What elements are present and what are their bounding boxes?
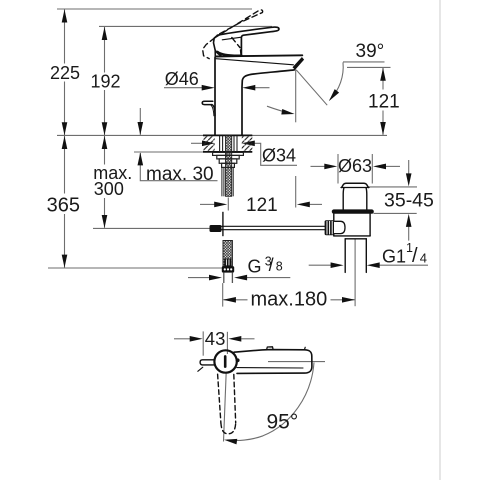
spout plumb line [295, 70, 297, 123]
arrowhead 365 bottom [62, 255, 68, 268]
arrowhead max30 down [138, 122, 144, 135]
top view handle tab [267, 347, 274, 350]
bottom hose reference line (365) [48, 267, 222, 269]
pop-up horizontal rod [210, 226, 325, 229]
pop-up rod knob shaft curve [212, 105, 215, 116]
waste centreline extension [354, 239, 356, 306]
lever blade top edge [218, 27, 279, 55]
shank side lines [221, 167, 223, 196]
arrowhead 35-45 top [406, 173, 412, 186]
top view pivot bar [224, 356, 227, 366]
max180 left extension [222, 283, 224, 307]
dim max180 line [224, 299, 248, 301]
arrowhead 95deg arc end [224, 437, 238, 444]
svg-text:Ø63: Ø63 [338, 156, 372, 176]
arrowhead 121 horizontal left [214, 202, 227, 208]
reference line top (spout height datum) [57, 8, 252, 10]
dim max300 line [104, 136, 106, 165]
svg-text:/: / [269, 255, 274, 275]
arrowhead Ø46 left-pointing [242, 85, 255, 91]
deck outline thick bottom [203, 151, 252, 153]
arrowhead 43 left [190, 336, 203, 342]
arrowhead 225 top [62, 10, 68, 23]
svg-text:121: 121 [368, 91, 400, 112]
arrowhead Ø34 left side [202, 141, 215, 147]
spout top inner line [216, 59, 294, 65]
arrowhead 192 bottom [102, 122, 108, 135]
supply hose braided [223, 241, 232, 267]
shank tube lines in hole [219, 136, 221, 152]
svg-text:300: 300 [94, 179, 124, 199]
svg-text:39°: 39° [356, 41, 385, 62]
pop-up rod knob [202, 101, 213, 104]
arrowhead max180 left [223, 297, 236, 303]
dashed rotated lever right edge [234, 374, 236, 423]
svg-text:95°: 95° [267, 410, 299, 433]
arrowhead max300 top [102, 136, 108, 149]
arrowhead Ø63 left [324, 164, 337, 170]
horseshoe washer [213, 152, 244, 155]
lever blade inner edge [222, 37, 241, 40]
dim Ø46 line [164, 87, 209, 89]
arrowhead Ø63 right [373, 164, 386, 170]
deck hatch left [204, 136, 215, 151]
waste neck [342, 188, 345, 210]
dim G1 1/4 [309, 264, 332, 266]
hose nipple [224, 273, 233, 283]
arrowhead G1 1/4 left [331, 262, 344, 268]
deck cross-section [203, 135, 252, 152]
dashed rotated lever end cap [221, 423, 236, 434]
max300 bottom reference line [93, 227, 210, 229]
spout stream diagonal [296, 70, 327, 105]
svg-text:max.180: max.180 [251, 288, 328, 310]
dashed lever base raised [203, 38, 215, 59]
svg-text:225: 225 [50, 63, 80, 83]
svg-text:365: 365 [47, 195, 80, 217]
39deg angle arc [330, 62, 343, 99]
dim 43 extension right [226, 332, 228, 354]
svg-text:Ø46: Ø46 [165, 69, 199, 89]
reference line lever height [99, 25, 272, 27]
lever base left edge [214, 35, 218, 56]
arrowhead 35-45 bottom [406, 214, 412, 227]
svg-text:121: 121 [246, 195, 278, 216]
mounting nut step 2 [219, 159, 237, 163]
dashed lever blade raised [215, 10, 263, 38]
dim 43 extension left [202, 331, 204, 355]
svg-text:8: 8 [276, 259, 283, 273]
arrowhead Ø46 right-pointing [202, 85, 215, 91]
dashed rotated lever left edge [218, 374, 221, 423]
spout top edge [215, 55, 302, 56]
page rule (right border) [439, 0, 441, 480]
waste rod coupling housing [335, 221, 346, 233]
waste body [334, 214, 370, 236]
39deg underline [343, 61, 385, 63]
dim Ø34 leader [191, 142, 204, 144]
svg-text:4: 4 [420, 251, 427, 266]
top view handle inner line [237, 367, 303, 369]
arrowhead 365 top [62, 136, 68, 149]
svg-text:35-45: 35-45 [384, 190, 434, 212]
svg-text:43: 43 [205, 328, 226, 349]
pop-up vertical rod [222, 212, 224, 236]
arrowhead 225 bottom [62, 122, 68, 135]
handle centreline [268, 361, 325, 363]
arrowhead 121 horizontal right [297, 202, 310, 208]
mounting nut step 1 [217, 155, 239, 159]
121 top reference line [347, 66, 391, 68]
deck outline thick top [203, 134, 252, 136]
dim Ø63 [337, 154, 339, 184]
waste plug cap [342, 183, 369, 187]
cartridge cap joint [218, 52, 242, 56]
arrowhead G3/8 right [234, 275, 247, 281]
arrowhead G1 1/4 right [367, 262, 380, 268]
svg-text:Ø34: Ø34 [262, 146, 296, 166]
dim G3/8 leader [188, 277, 210, 279]
arrowhead 121 vertical bottom [380, 122, 386, 135]
waste coupling knob [325, 220, 334, 235]
dim 192 line [104, 27, 106, 73]
arrowhead 43 right [228, 336, 241, 342]
svg-text:max. 30: max. 30 [146, 164, 214, 185]
arrowhead 39deg arc [327, 89, 339, 103]
dim 121 horizontal (reach) [200, 203, 215, 205]
top view body circle [214, 350, 236, 372]
small flow arc [267, 106, 291, 113]
spout outlet face [293, 57, 305, 70]
svg-text:G: G [248, 256, 262, 276]
dim 365 line [64, 136, 66, 194]
svg-text:192: 192 [91, 72, 121, 92]
top view screw dot [236, 359, 239, 362]
svg-text:G1: G1 [382, 246, 406, 266]
arrowhead 192 top [102, 27, 108, 40]
deck reference line [57, 134, 387, 136]
top view right end tick [303, 347, 306, 350]
arrowhead small flow arc [281, 109, 295, 117]
arrowhead 121 vertical top [380, 68, 386, 81]
pop-up rod clamp [210, 225, 222, 232]
waste tailpipe [344, 239, 346, 273]
faucet body left edge [214, 58, 216, 135]
top view knob left [200, 360, 214, 365]
arrowhead G3/8 left [209, 275, 222, 281]
waste body shoulder [334, 235, 370, 237]
faucet body right edge and spout underside [242, 70, 294, 135]
knob motion tick [198, 367, 203, 371]
dim 35-45 [368, 186, 417, 188]
arrowhead max30 up [138, 152, 144, 165]
hose connector nut [222, 266, 234, 272]
arrowhead max180 right [342, 297, 355, 303]
95deg arc [228, 363, 315, 441]
dim 225 line [64, 10, 66, 64]
dim 121 vertical line [382, 68, 384, 90]
rotated lever centreline [224, 372, 227, 442]
lever base bottom corner [215, 50, 221, 55]
arrowhead max300 bottom [102, 215, 108, 228]
mounting nut step 3 [222, 163, 235, 167]
dim max30 lower leader [140, 153, 217, 181]
hose nut upper [224, 259, 231, 267]
threaded stud [226, 136, 232, 197]
deck hatch right [242, 136, 253, 151]
dashed lever inner line [232, 38, 240, 48]
arrowhead Ø34 right side [242, 141, 255, 147]
svg-text:/: / [412, 245, 418, 267]
dim max30 upper arrow shaft [139, 108, 141, 135]
dim 43 line left [174, 338, 190, 340]
waste seal ring [332, 209, 374, 213]
dim 43 line right [241, 338, 254, 340]
deck underside thin line [134, 151, 204, 153]
top view handle outline [234, 350, 312, 374]
